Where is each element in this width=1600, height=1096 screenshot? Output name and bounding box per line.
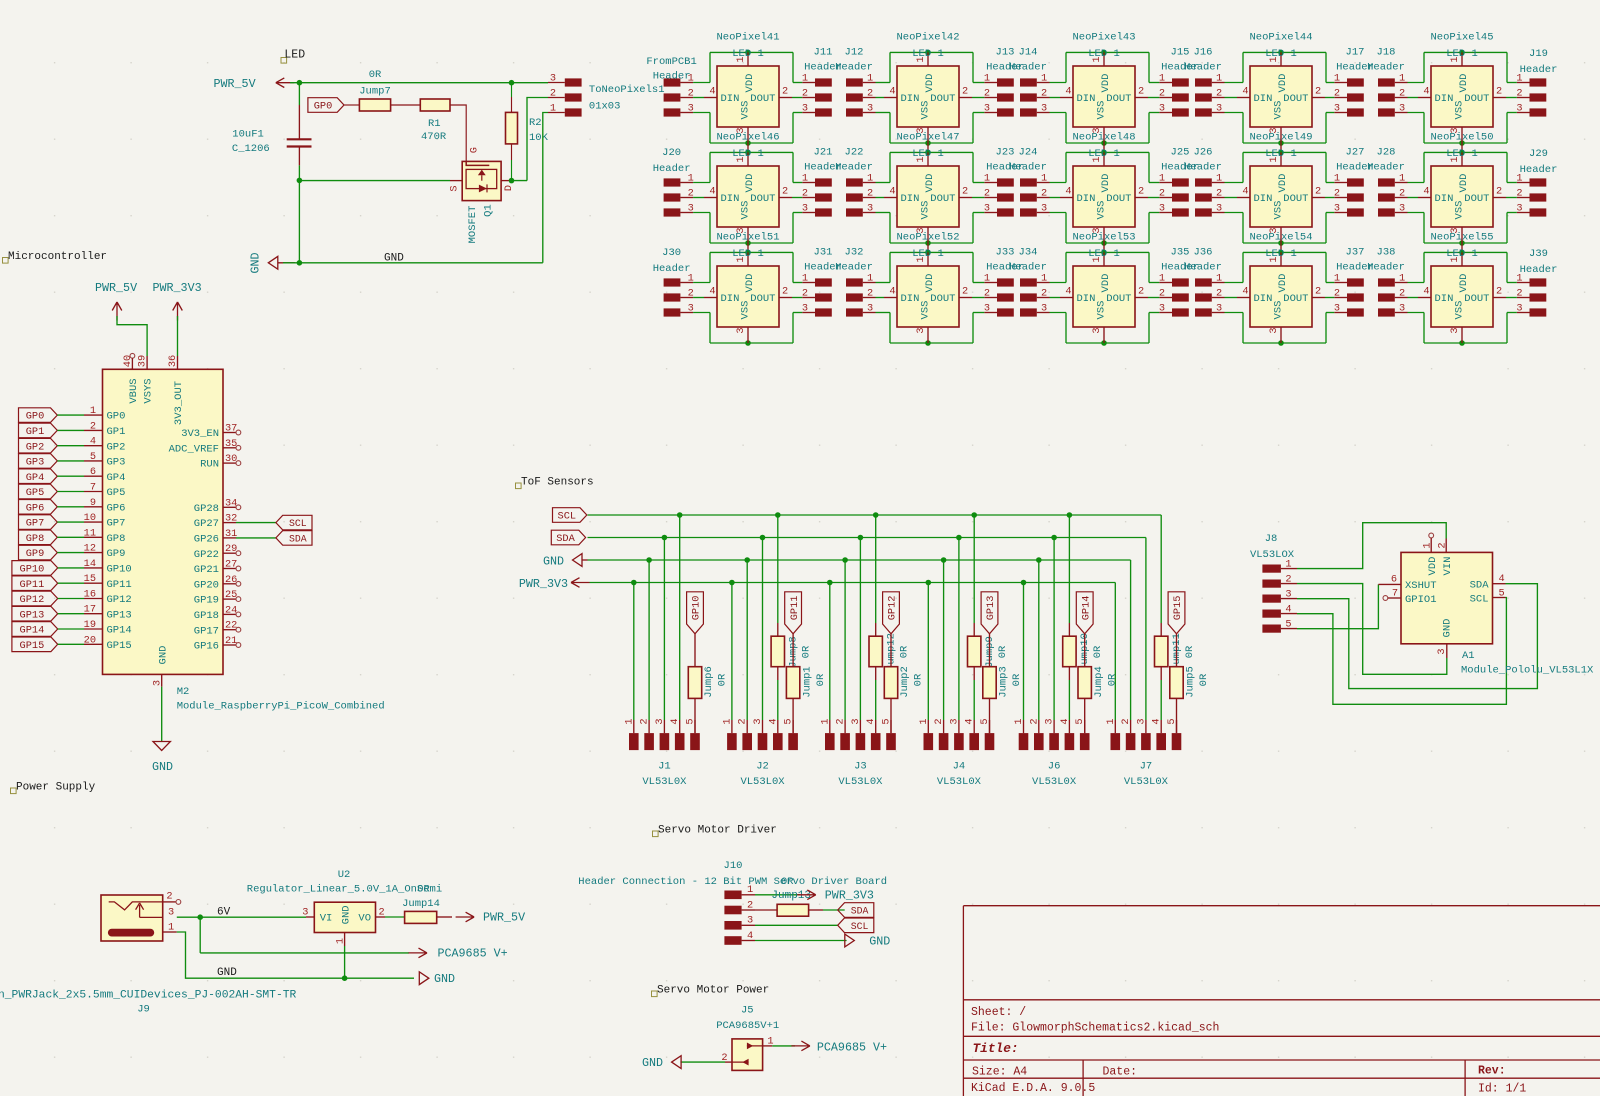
pin 20 GP15 (84, 634, 132, 652)
pin 40 VBUS (122, 353, 135, 369)
svg-text:GP1: GP1 (26, 426, 45, 438)
svg-text:J18: J18 (1377, 47, 1396, 59)
global label GP13 (12, 606, 58, 621)
svg-text:VSS: VSS (920, 301, 932, 320)
svg-text:MOSFET: MOSFET (467, 206, 479, 244)
svg-text:J27: J27 (1346, 147, 1365, 159)
svg-text:Title:: Title: (973, 1041, 1019, 1056)
svg-text:470R: 470R (421, 131, 447, 143)
svg-text:2: 2 (1516, 287, 1522, 299)
wire VDD/VSS loop NeoPixel55 (1424, 250, 1507, 346)
svg-text:2: 2 (1496, 86, 1502, 98)
wire U2 VO (385, 916, 405, 918)
svg-text:2: 2 (782, 286, 788, 298)
svg-text:GND: GND (434, 972, 455, 986)
svg-text:J38: J38 (1377, 247, 1396, 259)
svg-text:4: 4 (709, 86, 715, 98)
connector J29 (1516, 148, 1557, 217)
svg-text:2: 2 (737, 718, 749, 724)
svg-text:ADC_VREF: ADC_VREF (169, 443, 219, 455)
wire PCA9685 V+ net (200, 952, 409, 954)
wire VDD/VSS loop NeoPixel47 (890, 150, 973, 246)
svg-text:NeoPixel54: NeoPixel54 (1249, 232, 1312, 244)
pin 4 SDA (A1) (1470, 573, 1506, 592)
connector J28 (1367, 147, 1407, 217)
hierarchical label GND (J5) (642, 1056, 681, 1070)
svg-text:GP8: GP8 (107, 533, 126, 545)
svg-text:4: 4 (889, 186, 895, 198)
svg-text:GP14: GP14 (107, 625, 132, 637)
regulator U2 (247, 869, 442, 946)
svg-text:2: 2 (867, 287, 873, 299)
svg-text:1: 1 (1159, 172, 1165, 184)
svg-text:J3: J3 (854, 761, 867, 773)
svg-text:Header: Header (653, 71, 691, 83)
svg-text:2: 2 (1334, 187, 1340, 199)
svg-text:M2: M2 (177, 686, 190, 698)
svg-text:VDD: VDD (1277, 74, 1289, 93)
svg-text:S: S (448, 185, 460, 191)
svg-text:1: 1 (984, 172, 990, 184)
svg-text:PWR_3V3: PWR_3V3 (519, 577, 568, 591)
svg-text:GP12: GP12 (20, 594, 45, 606)
resistor Jump12 0R (869, 623, 910, 720)
svg-text:VL53L0X: VL53L0X (1032, 776, 1077, 788)
svg-text:VDD: VDD (1458, 274, 1470, 293)
svg-text:J5: J5 (741, 1005, 754, 1017)
svg-text:GP11: GP11 (107, 579, 132, 591)
svg-text:1: 1 (1105, 718, 1117, 724)
pin 22 GP17 (194, 620, 241, 638)
svg-text:3: 3 (1334, 102, 1340, 114)
svg-text:5: 5 (1499, 588, 1505, 600)
pin 7 GP5 (84, 482, 125, 500)
svg-text:DIN: DIN (1254, 293, 1273, 305)
svg-text:VDD: VDD (1277, 274, 1289, 293)
svg-text:2: 2 (1028, 718, 1040, 724)
svg-text:DIN: DIN (721, 193, 740, 205)
svg-text:20: 20 (84, 634, 96, 646)
svg-text:2: 2 (1216, 187, 1222, 199)
svg-text:LED 1: LED 1 (1088, 148, 1120, 160)
svg-text:3: 3 (1399, 302, 1405, 314)
resistor Jump8 0R (771, 623, 812, 720)
svg-text:VDD: VDD (744, 174, 756, 193)
pin 4 GP2 (84, 436, 125, 454)
connector FromPCB1 (646, 56, 696, 117)
connector J5 PCA9685V+1 (716, 1005, 779, 1071)
svg-text:3: 3 (550, 73, 556, 85)
section label Servo Motor Power (652, 985, 770, 997)
connector J23 (984, 147, 1024, 217)
section label LED (281, 49, 305, 64)
wire J8 pin4 to SCL (A1) (1297, 598, 1506, 705)
svg-text:LED 1: LED 1 (1265, 248, 1297, 260)
svg-text:2: 2 (1041, 87, 1047, 99)
svg-text:3: 3 (1399, 102, 1405, 114)
pin 39 VSYS (137, 355, 149, 369)
svg-text:DIN: DIN (1435, 293, 1454, 305)
svg-text:GP2: GP2 (107, 441, 126, 453)
svg-text:GP22: GP22 (194, 549, 219, 561)
svg-text:2: 2 (1285, 573, 1291, 585)
resistor R1 470R (391, 99, 450, 143)
svg-text:GP2: GP2 (26, 441, 45, 453)
global label GP7 (19, 515, 58, 530)
LED module NeoPixel54 (1237, 232, 1325, 344)
connector J12 (835, 47, 875, 117)
svg-text:2: 2 (1315, 86, 1321, 98)
wire GP1 (57, 429, 84, 431)
svg-text:11: 11 (84, 527, 96, 539)
pin 16 GP12 (84, 589, 132, 607)
svg-text:2: 2 (1496, 286, 1502, 298)
svg-text:LED 1: LED 1 (912, 248, 944, 260)
svg-text:GND: GND (384, 253, 404, 265)
svg-text:GP1: GP1 (107, 426, 126, 438)
svg-text:Jump2: Jump2 (899, 666, 911, 698)
svg-text:2: 2 (1041, 287, 1047, 299)
svg-text:9: 9 (90, 497, 96, 509)
svg-text:3: 3 (735, 327, 747, 333)
svg-text:0R: 0R (898, 645, 910, 658)
svg-text:DOUT: DOUT (750, 193, 775, 205)
svg-text:2: 2 (782, 186, 788, 198)
svg-text:Jump13: Jump13 (771, 890, 811, 902)
svg-text:7: 7 (90, 482, 96, 494)
svg-text:10: 10 (84, 512, 96, 524)
svg-text:3: 3 (802, 102, 808, 114)
LED module NeoPixel50 (1418, 132, 1506, 253)
svg-text:3: 3 (1041, 302, 1047, 314)
connector J4 VL53L0X (918, 718, 995, 788)
svg-text:LED 1: LED 1 (1265, 48, 1297, 60)
svg-text:GP14: GP14 (1080, 596, 1092, 621)
svg-text:2: 2 (984, 87, 990, 99)
global label GP9 (19, 545, 58, 560)
wire MOSFET drain (501, 178, 527, 184)
svg-text:3: 3 (1044, 718, 1056, 724)
svg-text:GP19: GP19 (194, 595, 219, 607)
LED module NeoPixel47 (884, 132, 972, 253)
svg-text:GP21: GP21 (194, 564, 219, 576)
wire SCL bus (588, 512, 1162, 518)
svg-text:12: 12 (84, 543, 96, 555)
svg-text:1: 1 (1159, 72, 1165, 84)
global label GP15 (12, 637, 58, 652)
svg-text:J26: J26 (1194, 147, 1213, 159)
wire VDD/VSS loop NeoPixel41 (710, 50, 793, 146)
wire SCL (M2) (236, 522, 276, 524)
svg-text:2: 2 (984, 287, 990, 299)
wire J8 pin2 to GND (A1) (1297, 584, 1447, 675)
svg-text:FromPCB1: FromPCB1 (646, 56, 696, 68)
svg-text:GP17: GP17 (194, 625, 219, 637)
svg-text:5: 5 (1285, 618, 1291, 630)
svg-text:1: 1 (802, 72, 808, 84)
svg-text:DOUT: DOUT (1283, 293, 1308, 305)
svg-text:2: 2 (1334, 287, 1340, 299)
svg-text:DIN: DIN (1077, 93, 1096, 105)
wire J30 pin2 (693, 297, 704, 299)
svg-text:Header: Header (1520, 264, 1558, 276)
wire GP14 (58, 628, 84, 630)
connector J24 (1009, 147, 1049, 217)
wire NeoPixel46 to J21 (792, 183, 802, 213)
svg-text:Jump5: Jump5 (1185, 666, 1197, 698)
wire NeoPixel to J19 (1506, 83, 1517, 113)
svg-text:3: 3 (1216, 102, 1222, 114)
svg-text:2: 2 (1041, 187, 1047, 199)
svg-text:DIN: DIN (1435, 193, 1454, 205)
connector J14 (1009, 47, 1049, 117)
wire VDD/VSS loop NeoPixel43 (1066, 50, 1149, 146)
resistor Jump11 0R (1155, 623, 1196, 720)
connector J1 VL53L0X (623, 718, 700, 788)
svg-text:GP7: GP7 (107, 518, 126, 530)
svg-text:32: 32 (225, 513, 237, 525)
svg-text:3: 3 (1268, 327, 1280, 333)
svg-text:Header Connection - 12 Bit PWM: Header Connection - 12 Bit PWM Servo Dri… (578, 876, 887, 888)
svg-text:3: 3 (1216, 202, 1222, 214)
wire J20 pin2 (693, 197, 704, 199)
section label Microcontroller (3, 251, 108, 263)
wire J34 to NeoPixel53 (1050, 283, 1067, 313)
connector J22 (835, 147, 875, 217)
svg-text:3: 3 (1334, 302, 1340, 314)
svg-text:LED 1: LED 1 (732, 148, 764, 160)
wire NeoPixel41 to J11 (792, 83, 802, 113)
wire MOSFET source (299, 180, 462, 182)
svg-text:SDA: SDA (289, 534, 307, 545)
svg-text:VDD: VDD (1458, 74, 1470, 93)
svg-text:3: 3 (302, 907, 308, 919)
svg-text:J31: J31 (814, 247, 833, 259)
svg-text:2: 2 (1159, 87, 1165, 99)
svg-text:GP4: GP4 (26, 472, 45, 484)
svg-text:GND: GND (642, 1056, 663, 1070)
wire J28 to NeoPixel50 (1408, 183, 1425, 213)
hierarchical label PCA9685 V+ (PSU) (409, 947, 508, 961)
connector J32 (835, 247, 875, 317)
svg-text:DIN: DIN (721, 293, 740, 305)
wire GND bus (588, 557, 1131, 563)
svg-text:J25: J25 (1171, 147, 1190, 159)
svg-text:LED 1: LED 1 (1088, 248, 1120, 260)
resistor R2 10K (506, 83, 549, 181)
wire FromPCB1 pin2 (693, 97, 704, 99)
svg-text:1: 1 (1422, 542, 1434, 548)
svg-text:4: 4 (767, 718, 779, 724)
svg-text:VIN: VIN (1442, 557, 1454, 576)
svg-text:GP9: GP9 (26, 548, 45, 560)
wire GP6 (57, 506, 84, 508)
pin 3 GND (A1) (1436, 619, 1453, 658)
svg-text:PCA9685 V+: PCA9685 V+ (817, 1040, 887, 1054)
svg-text:J19: J19 (1529, 48, 1548, 60)
svg-text:GP15: GP15 (107, 640, 132, 652)
svg-text:1: 1 (550, 103, 556, 115)
transistor Q1 MOSFET (448, 147, 515, 243)
svg-text:Header: Header (1367, 262, 1405, 274)
svg-text:Jump1: Jump1 (801, 666, 813, 698)
svg-text:NeoPixel53: NeoPixel53 (1072, 232, 1135, 244)
svg-text:Header: Header (835, 162, 873, 174)
svg-text:VSS: VSS (740, 201, 752, 220)
svg-text:1: 1 (721, 718, 733, 724)
pin 9 GP6 (84, 497, 125, 515)
svg-text:3: 3 (984, 202, 990, 214)
wire GP0 (57, 414, 84, 416)
svg-text:Module_Pololu_VL53L1X: Module_Pololu_VL53L1X (1461, 665, 1594, 677)
svg-text:GP5: GP5 (107, 487, 126, 499)
pin 37 3V3_EN (181, 423, 241, 441)
LED module NeoPixel46 (704, 132, 792, 253)
connector J18 (1367, 47, 1407, 117)
svg-text:Jump7: Jump7 (359, 86, 391, 98)
pin 31 GP26 (194, 528, 238, 546)
resistor Jump10 0R (1063, 623, 1104, 720)
svg-text:J23: J23 (996, 147, 1015, 159)
svg-text:PWR_5V: PWR_5V (214, 77, 256, 91)
wire J4 risers (928, 515, 974, 720)
svg-text:GP0: GP0 (26, 411, 45, 423)
svg-text:LED 1: LED 1 (912, 48, 944, 60)
svg-text:SCL: SCL (851, 921, 869, 932)
wire J1 risers (634, 515, 680, 720)
svg-text:0R: 0R (801, 645, 813, 658)
svg-text:VDD: VDD (924, 74, 936, 93)
capacitor C1 10uF1 C_1206 (232, 105, 312, 165)
resistor Jump5 0R (1170, 634, 1210, 733)
svg-text:LED 1: LED 1 (732, 48, 764, 60)
svg-text:LED 1: LED 1 (1088, 48, 1120, 60)
svg-text:5: 5 (90, 451, 96, 463)
svg-text:2: 2 (1399, 287, 1405, 299)
connector J20 (653, 147, 694, 217)
connector J17 (1334, 47, 1374, 117)
svg-text:SDA: SDA (851, 906, 869, 917)
svg-text:Header: Header (1009, 262, 1047, 274)
svg-text:DOUT: DOUT (930, 93, 955, 105)
wire SDA (M2) (236, 537, 276, 539)
svg-text:J14: J14 (1019, 47, 1038, 59)
svg-text:VSYS: VSYS (143, 378, 155, 403)
svg-text:2: 2 (962, 186, 968, 198)
connector J27 (1334, 147, 1374, 217)
svg-text:NeoPixel51: NeoPixel51 (716, 232, 779, 244)
svg-text:NeoPixel44: NeoPixel44 (1249, 32, 1312, 44)
svg-text:GP15: GP15 (1172, 596, 1184, 621)
svg-text:GP4: GP4 (107, 472, 126, 484)
svg-text:Q1: Q1 (483, 204, 495, 217)
wire GND net (PSU) (177, 932, 414, 981)
svg-text:ToF Sensors: ToF Sensors (521, 477, 594, 489)
svg-text:GP20: GP20 (194, 579, 219, 591)
svg-text:1: 1 (1041, 272, 1047, 284)
svg-text:VSS: VSS (1273, 201, 1285, 220)
wire J10 pin2 (755, 909, 777, 911)
svg-text:3: 3 (1516, 202, 1522, 214)
wire 6V net (177, 914, 306, 953)
svg-text:0R: 0R (997, 645, 1009, 658)
svg-text:VSS: VSS (920, 101, 932, 120)
connector J3 VL53L0X (819, 718, 896, 788)
svg-text:GND: GND (869, 935, 890, 949)
svg-text:2: 2 (867, 87, 873, 99)
svg-text:2: 2 (747, 899, 753, 911)
svg-text:GPIO1: GPIO1 (1405, 594, 1437, 606)
wire J36 to NeoPixel54 (1225, 283, 1244, 313)
svg-text:1: 1 (1013, 718, 1025, 724)
svg-text:VBUS: VBUS (128, 378, 140, 403)
svg-text:DIN: DIN (1077, 193, 1096, 205)
svg-text:4: 4 (669, 718, 681, 724)
pin 35 ADC_VREF (169, 438, 241, 456)
svg-text:Rev:: Rev: (1478, 1065, 1506, 1078)
svg-text:J21: J21 (814, 147, 833, 159)
svg-text:0R: 0R (781, 876, 794, 888)
connector J26 (1184, 147, 1224, 217)
svg-text:17: 17 (84, 604, 96, 616)
wire J12 to NeoPixel42 (876, 83, 891, 113)
svg-text:1: 1 (168, 922, 174, 934)
svg-text:5: 5 (783, 718, 795, 724)
svg-text:3: 3 (1449, 327, 1461, 333)
wire VDD/VSS loop NeoPixel45 (1424, 50, 1507, 146)
svg-text:GP13: GP13 (20, 609, 45, 621)
wire U2 GND (344, 946, 346, 978)
svg-text:4: 4 (1423, 286, 1429, 298)
svg-text:D: D (503, 185, 515, 191)
pin 7 GPIO1 (A1) (1383, 587, 1437, 606)
pin 36 3V3_OUT (167, 355, 179, 369)
svg-text:Sheet: /: Sheet: / (971, 1006, 1026, 1019)
svg-text:R1: R1 (428, 118, 441, 130)
wire J2 risers (732, 515, 778, 720)
wire M2 GND (161, 687, 163, 742)
svg-text:J7: J7 (1140, 761, 1153, 773)
svg-text:3: 3 (915, 327, 927, 333)
svg-text:4: 4 (1499, 573, 1505, 585)
svg-text:GP16: GP16 (194, 641, 219, 653)
svg-text:NeoPixel55: NeoPixel55 (1430, 232, 1493, 244)
svg-text:J28: J28 (1377, 147, 1396, 159)
pin 10 GP7 (84, 512, 126, 530)
svg-text:LED 1: LED 1 (732, 248, 764, 260)
svg-text:DIN: DIN (901, 293, 920, 305)
svg-text:GP28: GP28 (194, 503, 219, 515)
svg-text:GP6: GP6 (26, 502, 45, 514)
wire GP2 (57, 445, 84, 447)
svg-text:3: 3 (688, 302, 694, 314)
pin 26 GP20 (194, 574, 241, 592)
svg-text:GP14: GP14 (20, 625, 45, 637)
svg-text:GP8: GP8 (26, 533, 45, 545)
svg-text:0R: 0R (1092, 645, 1104, 658)
wire J30 pin3 (693, 312, 710, 314)
svg-text:VDD: VDD (1100, 174, 1112, 193)
wire J24 to NeoPixel48 (1050, 183, 1067, 213)
svg-text:J22: J22 (845, 147, 864, 159)
svg-text:DOUT: DOUT (1464, 293, 1489, 305)
svg-text:19: 19 (84, 619, 96, 631)
svg-text:2: 2 (933, 718, 945, 724)
svg-text:4: 4 (1059, 718, 1071, 724)
svg-text:VSS: VSS (1273, 101, 1285, 120)
svg-text:3: 3 (867, 202, 873, 214)
wire PWR_3V3 bus (590, 580, 1116, 586)
